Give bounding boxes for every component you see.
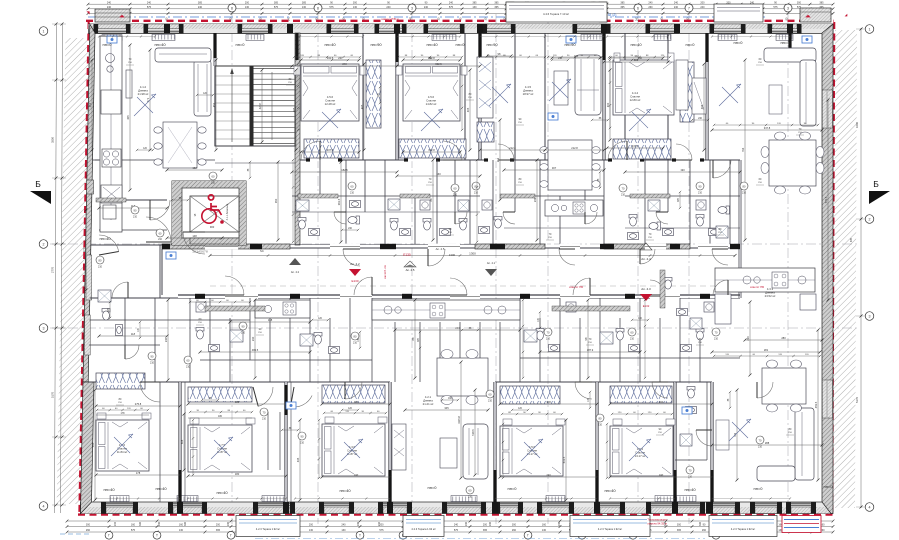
svg-text:240: 240 <box>354 473 359 477</box>
svg-text:210: 210 <box>98 266 103 269</box>
svg-text:Б: Б <box>35 179 41 189</box>
right axis bubbles <box>865 25 874 34</box>
svg-text:E130: E130 <box>403 253 411 257</box>
svg-text:385: 385 <box>274 1 279 4</box>
radiator under window <box>432 35 456 41</box>
svg-text:435: 435 <box>91 442 95 447</box>
svg-text:452: 452 <box>212 102 216 107</box>
svg-text:212.8: 212.8 <box>571 146 578 150</box>
svg-text:1000: 1000 <box>855 122 859 128</box>
svg-text:385: 385 <box>620 1 625 4</box>
svg-text:пп=0: пп=0 <box>824 484 834 489</box>
radiator above window <box>542 507 569 514</box>
svg-text:385: 385 <box>302 1 307 4</box>
radiator above window <box>110 496 129 502</box>
svg-text:210: 210 <box>453 194 458 197</box>
interior dims bottom <box>96 405 180 407</box>
svg-text:210: 210 <box>262 418 267 421</box>
svg-text:212: 212 <box>496 157 500 162</box>
svg-text:пп=40: пп=40 <box>630 42 642 47</box>
svg-text:210: 210 <box>742 192 747 195</box>
svg-text:навеч НГ/В м: навеч НГ/В м <box>381 17 398 21</box>
stove left apt <box>102 149 121 167</box>
svg-text:230: 230 <box>251 336 255 341</box>
svg-text:Б: Б <box>873 179 879 189</box>
svg-text:Ап. 4.2: Ап. 4.2 <box>291 270 300 274</box>
svg-text:160: 160 <box>542 524 547 527</box>
svg-text:365: 365 <box>494 6 499 9</box>
svg-text:300: 300 <box>184 521 187 526</box>
door tag bubbles <box>209 172 217 180</box>
svg-text:130: 130 <box>353 6 358 9</box>
svg-text:E130: E130 <box>351 279 358 283</box>
svg-text:21.21 м²: 21.21 м² <box>423 402 434 406</box>
black wall chunks top <box>295 33 298 60</box>
left axis bubbles <box>39 27 48 36</box>
svg-text:14.82 м²: 14.82 м² <box>426 102 437 106</box>
svg-text:240: 240 <box>386 6 391 9</box>
entry triangles <box>289 258 301 265</box>
svg-text:337.8: 337.8 <box>764 126 771 130</box>
svg-text:518.5: 518.5 <box>471 429 475 436</box>
svg-text:260: 260 <box>648 6 653 9</box>
bottom-right living <box>795 408 814 480</box>
ac box top-right <box>800 8 831 22</box>
svg-text:пп=40: пп=40 <box>339 488 351 493</box>
dims lower-mid <box>200 351 310 353</box>
svg-text:240: 240 <box>341 524 346 527</box>
corridor black chunks <box>162 244 170 249</box>
svg-text:300: 300 <box>353 1 358 4</box>
radiator under window <box>246 35 264 41</box>
radiator under window <box>428 24 460 29</box>
svg-text:4.4.6 Тераса 7.13 м²: 4.4.6 Тераса 7.13 м² <box>543 12 569 16</box>
extra tick dims <box>294 56 360 58</box>
svg-text:пп=0: пп=0 <box>236 42 246 47</box>
blue dash bottom-left <box>60 533 90 535</box>
svg-text:11.84 м²: 11.84 м² <box>117 450 127 454</box>
dining table room D <box>548 140 592 190</box>
svg-text:240: 240 <box>674 6 679 9</box>
svg-text:240: 240 <box>107 1 112 4</box>
wardrobes bottom <box>96 373 145 389</box>
balcony top 1 <box>506 2 607 22</box>
svg-text:350: 350 <box>274 198 278 203</box>
svg-text:453.5: 453.5 <box>814 401 818 408</box>
svg-text:160: 160 <box>436 172 441 176</box>
left dims <box>55 24 57 513</box>
svg-text:471: 471 <box>146 97 150 102</box>
svg-text:307: 307 <box>552 166 557 170</box>
radiator above window <box>451 496 477 502</box>
svg-text:1: 1 <box>869 27 871 31</box>
svg-text:пп=90: пп=90 <box>370 42 382 47</box>
svg-text:240: 240 <box>114 521 117 526</box>
bathrooms upper-mid <box>296 200 309 211</box>
svg-text:пп=90: пп=90 <box>486 42 498 47</box>
svg-text:Ап. 4.5: Ап. 4.5 <box>436 247 445 251</box>
svg-text:210: 210 <box>468 496 473 499</box>
svg-text:4.2.3 Тераса 1.92 м²: 4.2.3 Тераса 1.92 м² <box>411 527 435 531</box>
svg-text:SC: SC <box>260 249 264 253</box>
radiator above window <box>655 496 696 502</box>
bed top E <box>613 60 674 115</box>
svg-text:1300: 1300 <box>449 253 456 257</box>
svg-text:пп=40: пп=40 <box>780 40 792 45</box>
svg-text:2770: 2770 <box>51 267 55 273</box>
dining top-right <box>769 140 816 186</box>
lower-mid partitions <box>189 298 191 382</box>
svg-text:212.8: 212.8 <box>509 146 516 150</box>
top axis bubbles <box>228 4 236 12</box>
staircase <box>215 66 295 146</box>
svg-text:160: 160 <box>179 524 184 527</box>
doors top rooms <box>301 141 320 160</box>
svg-text:130: 130 <box>341 529 346 532</box>
svg-text:300: 300 <box>699 521 702 526</box>
bath bottom right small <box>687 387 695 399</box>
interior dims top rooms <box>301 151 359 153</box>
svg-text:210: 210 <box>621 194 626 197</box>
svg-text:Т: Т <box>359 534 361 538</box>
svg-text:260: 260 <box>86 529 91 532</box>
sofa bottom center (right side) <box>463 424 488 479</box>
grid axes <box>231 14 233 524</box>
svg-text:210: 210 <box>698 192 703 195</box>
svg-text:608: 608 <box>180 439 184 444</box>
svg-text:240: 240 <box>659 473 664 477</box>
svg-text:312.8: 312.8 <box>428 148 435 152</box>
svg-text:130: 130 <box>309 529 314 532</box>
svg-text:335: 335 <box>850 237 853 242</box>
svg-text:240: 240 <box>424 6 429 9</box>
svg-text:613.5: 613.5 <box>562 456 566 463</box>
balcony top 2 <box>714 4 763 22</box>
shelf bottom center left <box>392 424 406 470</box>
upper-mid partitions <box>319 160 321 196</box>
svg-text:260: 260 <box>512 529 517 532</box>
svg-text:пп=40: пп=40 <box>216 490 228 495</box>
svg-text:210: 210 <box>758 446 763 449</box>
svg-text:пп=40: пп=40 <box>426 42 438 47</box>
radiator under window <box>654 35 671 41</box>
svg-text:575: 575 <box>329 6 334 9</box>
svg-text:210: 210 <box>241 332 246 335</box>
svg-text:240: 240 <box>147 1 152 4</box>
bottom axis bubbles <box>105 531 113 539</box>
svg-text:484.5: 484.5 <box>252 348 259 352</box>
right wall <box>822 24 833 514</box>
svg-text:308: 308 <box>235 400 240 404</box>
radiator above window <box>177 496 198 502</box>
corridor bottom wall <box>178 294 740 296</box>
radiator above window <box>651 507 700 514</box>
svg-text:130: 130 <box>179 529 184 532</box>
svg-text:ламела 94.35 м: ламела 94.35 м <box>647 522 667 526</box>
nightstands <box>294 66 300 75</box>
bed top B <box>403 64 460 121</box>
svg-text:180: 180 <box>235 472 240 476</box>
svg-text:240: 240 <box>700 6 705 9</box>
svg-text:240: 240 <box>378 521 381 526</box>
svg-text:575: 575 <box>454 529 459 532</box>
narrow bed top C <box>477 57 493 118</box>
doors bottom rooms <box>140 382 160 402</box>
svg-text:200: 200 <box>357 521 360 526</box>
svg-text:пп=40: пп=40 <box>103 487 115 492</box>
sink left apt <box>101 185 122 203</box>
svg-text:3: 3 <box>411 6 413 10</box>
svg-text:900: 900 <box>210 225 215 229</box>
svg-text:4115.8: 4115.8 <box>457 416 461 424</box>
radiator above window <box>262 496 286 502</box>
svg-text:200: 200 <box>227 521 230 526</box>
bottom zone partition walls <box>178 382 180 502</box>
svg-text:ответст ПБ: ответст ПБ <box>569 285 583 289</box>
balcony top 1 rails <box>506 2 514 22</box>
svg-text:240: 240 <box>164 337 168 342</box>
svg-text:4.2.3 Тераса 1.92 м²: 4.2.3 Тераса 1.92 м² <box>731 527 755 531</box>
interior dims mid <box>292 171 397 173</box>
radiator under window <box>379 24 402 29</box>
svg-text:405: 405 <box>126 115 130 120</box>
elevator cross <box>190 196 239 232</box>
svg-text:5170: 5170 <box>855 397 859 403</box>
svg-text:Топлоизолация: Топлоизолация <box>647 518 667 522</box>
svg-text:210: 210 <box>350 192 355 195</box>
svg-text:3: 3 <box>43 326 45 330</box>
svg-text:288: 288 <box>765 441 770 445</box>
svg-text:575: 575 <box>274 6 279 9</box>
extra wall tick rows top/bottom rooms <box>99 36 155 38</box>
svg-text:345: 345 <box>444 406 449 410</box>
svg-text:Г: Г <box>108 534 110 538</box>
svg-text:200: 200 <box>465 521 468 526</box>
svg-text:300: 300 <box>354 400 359 404</box>
svg-text:4: 4 <box>43 504 45 508</box>
svg-text:1 2 3 4 5 6 7 8: 1 2 3 4 5 6 7 8 <box>192 251 208 254</box>
svg-text:Ап. 4.2: Ап. 4.2 <box>350 262 360 266</box>
svg-text:пп=0: пп=0 <box>428 485 438 490</box>
sofa L top-right <box>764 48 816 62</box>
svg-text:337.6: 337.6 <box>632 144 639 148</box>
svg-text:240: 240 <box>648 1 653 4</box>
svg-text:385: 385 <box>198 1 203 4</box>
svg-text:300: 300 <box>139 521 142 526</box>
svg-text:300: 300 <box>512 524 517 527</box>
svg-text:300: 300 <box>86 524 91 527</box>
svg-text:Ап. 4.4: Ап. 4.4 <box>641 257 651 261</box>
svg-text:182.5: 182.5 <box>341 168 348 172</box>
dining bottom-right <box>762 368 806 404</box>
coffee table bottom center <box>440 438 457 468</box>
structural columns <box>164 24 170 33</box>
blue electro boxes <box>107 36 117 43</box>
svg-text:240: 240 <box>455 326 460 330</box>
svg-text:12.28 м²: 12.28 м² <box>325 102 336 106</box>
top dimension lines <box>88 3 833 5</box>
svg-text:200: 200 <box>489 521 492 526</box>
doors left col <box>150 200 170 220</box>
svg-text:Г: Г <box>230 534 232 538</box>
svg-text:3: 3 <box>787 6 789 10</box>
svg-text:405: 405 <box>466 107 470 112</box>
svg-text:575: 575 <box>379 529 384 532</box>
bottom balconies <box>236 516 300 537</box>
svg-text:210: 210 <box>133 216 138 219</box>
black wall chunks bottom <box>284 385 287 415</box>
radiator under window <box>152 35 175 41</box>
svg-text:E132: E132 <box>643 304 650 308</box>
svg-text:4.2.3 Тераса 1.92 м²: 4.2.3 Тераса 1.92 м² <box>256 527 280 531</box>
svg-text:3: 3 <box>869 314 871 318</box>
left apt entry door <box>146 217 171 242</box>
bottom wall band <box>81 502 832 514</box>
svg-text:385: 385 <box>819 1 824 4</box>
svg-text:6: 6 <box>637 6 639 10</box>
svg-text:308: 308 <box>546 400 551 404</box>
svg-text:239: 239 <box>746 336 750 341</box>
svg-text:130: 130 <box>542 529 547 532</box>
svg-text:575: 575 <box>147 6 152 9</box>
red insulation dashed <box>86 20 834 22</box>
svg-text:210: 210 <box>688 476 693 479</box>
radiator under window <box>776 35 793 41</box>
corridor top wall <box>162 244 290 249</box>
ground hatch left <box>57 38 90 504</box>
svg-text:200: 200 <box>558 521 561 526</box>
svg-text:пп=0: пп=0 <box>686 42 696 47</box>
svg-text:307.5: 307.5 <box>327 148 334 152</box>
svg-text:260: 260 <box>702 529 707 532</box>
svg-text:190: 190 <box>680 168 685 172</box>
stair-bedroom wall <box>295 33 300 245</box>
svg-text:12.80 м²: 12.80 м² <box>630 98 641 102</box>
kitchen counter center <box>372 300 520 320</box>
svg-text:зав Ш.В. отв: зав Ш.В. отв <box>384 264 387 279</box>
room diagonal marks <box>319 109 341 131</box>
svg-text:435: 435 <box>296 457 300 462</box>
right apt kitchen <box>715 268 815 292</box>
bottom dimension lines <box>67 520 833 522</box>
ac box top-left <box>95 9 130 22</box>
svg-text:5170: 5170 <box>51 392 55 398</box>
left wall slanted <box>83 24 95 382</box>
svg-text:пп=40: пп=40 <box>684 487 696 492</box>
svg-text:210: 210 <box>488 400 493 403</box>
svg-text:пп=40: пп=40 <box>99 236 111 241</box>
svg-text:Ап. 4.3: Ап. 4.3 <box>641 287 651 291</box>
svg-text:300: 300 <box>677 524 682 527</box>
dining bottom center <box>437 358 488 396</box>
left column walls <box>92 159 99 161</box>
svg-text:210: 210 <box>546 338 551 341</box>
svg-text:130: 130 <box>302 6 307 9</box>
svg-text:385: 385 <box>494 1 499 4</box>
beds bottom <box>96 420 149 471</box>
kitchen counter left-center <box>255 300 310 318</box>
svg-text:7: 7 <box>688 6 690 10</box>
svg-text:8: 8 <box>317 6 319 10</box>
svg-text:575: 575 <box>131 529 136 532</box>
svg-text:42.17: 42.17 <box>258 102 262 109</box>
svg-text:405: 405 <box>292 107 296 112</box>
svg-text:4.2.3 Тераса 1.92 м²: 4.2.3 Тераса 1.92 м² <box>598 527 622 531</box>
svg-text:160: 160 <box>131 524 136 527</box>
wheelchair red <box>202 209 216 223</box>
svg-text:361.5: 361.5 <box>337 198 341 205</box>
svg-text:пп=40: пп=40 <box>154 42 166 47</box>
svg-text:118: 118 <box>131 332 136 336</box>
svg-text:240: 240 <box>198 6 203 9</box>
svg-text:пп=0: пп=0 <box>456 42 466 47</box>
legend bottom right <box>782 516 821 533</box>
svg-text:210: 210 <box>630 338 635 341</box>
kitchen counter left apt <box>100 36 122 232</box>
svg-text:281: 281 <box>764 348 769 352</box>
radiator above window <box>791 507 811 514</box>
svg-text:3550: 3550 <box>51 137 55 143</box>
doors corridor top <box>183 232 205 254</box>
svg-text:130: 130 <box>472 6 477 9</box>
svg-text:365: 365 <box>216 529 221 532</box>
svg-text:Ап. 4.5: Ап. 4.5 <box>406 268 415 272</box>
svg-text:200: 200 <box>309 524 314 527</box>
radiator above window <box>755 507 777 514</box>
right apt fridge <box>800 294 816 310</box>
kitchenette mid D <box>545 200 603 216</box>
hatched wall lower-mid right <box>552 306 630 311</box>
svg-text:240: 240 <box>546 473 551 477</box>
svg-text:178: 178 <box>121 412 126 415</box>
radiator under window <box>718 35 737 41</box>
stair landing <box>215 145 295 147</box>
svg-text:405: 405 <box>360 104 364 109</box>
svg-text:200: 200 <box>216 524 221 527</box>
svg-text:2: 2 <box>869 217 871 221</box>
doors corridor bottom <box>225 276 244 295</box>
svg-text:пп=40: пп=40 <box>155 486 167 491</box>
svg-text:200: 200 <box>245 1 250 4</box>
svg-text:21.98 м²: 21.98 м² <box>138 92 149 96</box>
svg-text:302.5: 302.5 <box>435 62 442 66</box>
right dims <box>860 28 862 508</box>
room 668-712 furniture <box>676 60 688 110</box>
svg-text:2: 2 <box>43 242 45 246</box>
left apt tv <box>126 70 132 98</box>
svg-text:168: 168 <box>268 318 273 322</box>
svg-text:451: 451 <box>88 102 92 107</box>
svg-text:Г: Г <box>527 534 529 538</box>
left apt table <box>163 122 197 168</box>
svg-text:405: 405 <box>700 104 704 109</box>
svg-text:152: 152 <box>192 166 197 170</box>
svg-text:178: 178 <box>136 471 141 475</box>
baths lower-mid <box>196 328 204 340</box>
elevator shaft <box>172 181 246 245</box>
bed top A <box>301 64 359 121</box>
svg-text:200: 200 <box>158 521 161 526</box>
svg-text:210: 210 <box>211 182 216 185</box>
radiator above window <box>447 507 481 514</box>
svg-text:1300: 1300 <box>469 251 476 255</box>
svg-text:575: 575 <box>773 6 778 9</box>
svg-text:пп=40: пп=40 <box>324 42 336 47</box>
wardrobes top <box>304 139 359 158</box>
svg-text:пп=0: пп=0 <box>754 486 764 491</box>
svg-text:23.52 м²: 23.52 м² <box>765 294 776 298</box>
svg-text:200: 200 <box>483 524 488 527</box>
